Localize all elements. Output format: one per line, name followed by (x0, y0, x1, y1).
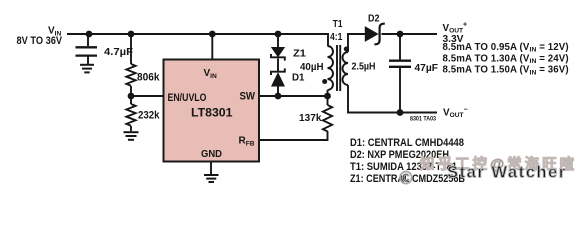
resistor 806k (126, 64, 135, 86)
wire zener branch top (277, 34, 279, 48)
diode D2 schottky (365, 24, 385, 45)
svg-text:D1: D1 (292, 73, 305, 84)
svg-text:SW: SW (240, 91, 256, 103)
svg-text:VOUT+: VOUT+ (443, 22, 468, 35)
wire Z1 to D1 (277, 59, 279, 72)
node VIN at 4.7uF (86, 31, 93, 38)
transformer T1 primary phase dot (322, 79, 327, 84)
zener Z1 (271, 48, 285, 61)
node SW at D1 (275, 93, 282, 100)
wire EN/UVLO pin (131, 95, 164, 97)
svg-text:137k: 137k (299, 113, 322, 124)
capacitor 47uF plates (389, 61, 411, 67)
svg-text:4:1: 4:1 (330, 32, 343, 43)
wire input cap branch (87, 34, 89, 46)
node VIN at IC pin (209, 31, 216, 38)
wire VIN pin (211, 34, 213, 60)
wire primary bottom lead (327, 90, 329, 96)
wire 232k to ground (130, 126, 132, 131)
svg-text:4.7µF: 4.7µF (104, 47, 133, 58)
op-amp U1 LT8301 body (164, 60, 260, 162)
wire secondary top rail (348, 34, 365, 52)
wire output cap bottom (399, 68, 401, 113)
wire secondary bottom lead (348, 85, 437, 113)
wire input cap to ground (87, 57, 89, 65)
svg-text:VOUT−: VOUT− (443, 106, 468, 119)
svg-text:LT8301: LT8301 (191, 106, 233, 120)
svg-text:8V TO 36V: 8V TO 36V (17, 35, 63, 47)
svg-text:806k: 806k (137, 72, 160, 84)
resistor 232k (126, 104, 135, 126)
wire VIN top rail (67, 34, 328, 46)
wire SW pin rail (259, 95, 328, 97)
ground below 4.7uF (80, 65, 94, 73)
wire divider mid to EN node (130, 86, 132, 104)
svg-text:8301 TA03: 8301 TA03 (410, 115, 436, 122)
node SW at primary (324, 93, 331, 100)
svg-text:8.5mA TO 1.30A (VIN = 24V): 8.5mA TO 1.30A (VIN = 24V) (443, 53, 569, 65)
capacitor 4.7uF plates (76, 47, 98, 55)
wire divider branch top (130, 34, 132, 64)
wire 137k to RFB (259, 131, 328, 140)
wire D2 cathode to VOUT+ (382, 33, 438, 35)
svg-text:40µH: 40µH (300, 62, 324, 73)
svg-text:©: © (399, 168, 413, 188)
svg-text:47µF: 47µF (415, 63, 439, 74)
diode D1 (271, 68, 285, 86)
resistor 137k (323, 105, 332, 131)
svg-text:Star Watcher: Star Watcher (447, 162, 567, 181)
transformer T1 primary winding (328, 46, 334, 90)
node EN divider tap (128, 93, 135, 100)
wire GND pin (210, 162, 212, 175)
node VOUT- at 47uF (397, 109, 404, 116)
wire D1 to SW rail (277, 86, 279, 96)
svg-text:T1: T1 (333, 19, 343, 30)
node junction dots (86, 31, 404, 116)
svg-text:232k: 232k (138, 109, 160, 121)
svg-text:GND: GND (201, 149, 222, 160)
ground below 232k (124, 132, 139, 140)
svg-text:D1: CENTRAL CMHD4448: D1: CENTRAL CMHD4448 (350, 137, 464, 149)
node VIN at divider (128, 31, 135, 38)
transformer T1 secondary phase dot (344, 47, 349, 52)
node VOUT+ at 47uF (397, 31, 404, 38)
svg-text:Z1: Z1 (293, 48, 306, 59)
wire output cap branch (399, 34, 401, 60)
transformer T1 core (337, 45, 340, 91)
svg-text:2.5µH: 2.5µH (352, 61, 376, 72)
ground below GND pin (204, 175, 219, 182)
wire SW node to 137k (327, 96, 329, 105)
svg-text:8.5mA TO 0.95A (VIN = 12V): 8.5mA TO 0.95A (VIN = 12V) (443, 42, 569, 54)
svg-text:8.5mA TO 1.50A (VIN = 36V): 8.5mA TO 1.50A (VIN = 36V) (443, 65, 569, 77)
svg-text:EN/UVLO: EN/UVLO (168, 92, 207, 104)
node VIN at zener branch (275, 31, 282, 38)
svg-text:D2: D2 (368, 14, 380, 25)
transformer T1 secondary winding (343, 52, 349, 85)
